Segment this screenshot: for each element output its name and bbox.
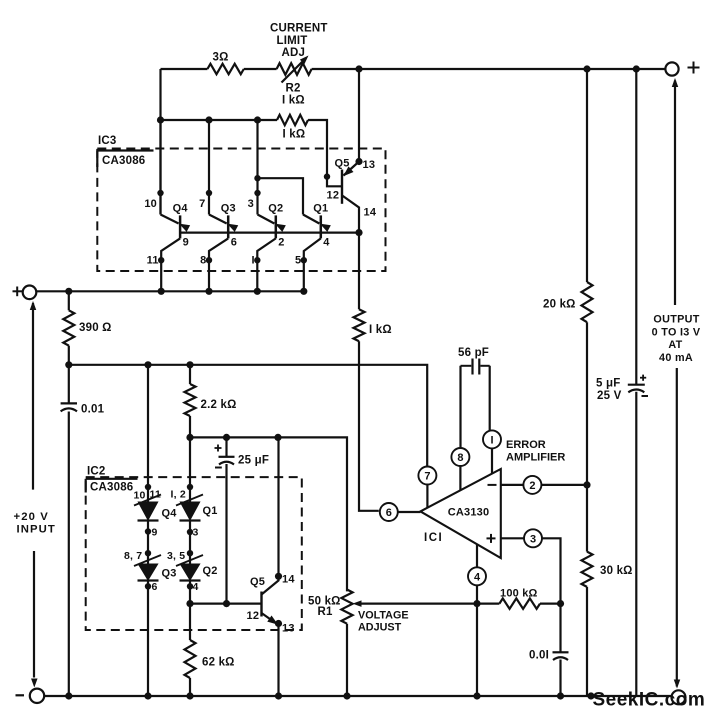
svg-text:Q1: Q1	[313, 203, 328, 215]
svg-text:Q3: Q3	[221, 203, 236, 215]
svg-text:Q4: Q4	[162, 508, 178, 520]
svg-text:3: 3	[193, 527, 199, 539]
svg-text:3: 3	[530, 533, 536, 545]
svg-text:4: 4	[323, 237, 330, 249]
svg-text:ICI: ICI	[424, 532, 443, 544]
svg-text:R1: R1	[318, 606, 334, 618]
svg-text:R2: R2	[286, 83, 301, 95]
svg-text:13: 13	[363, 159, 376, 171]
svg-text:3Ω: 3Ω	[213, 52, 229, 64]
svg-text:6: 6	[231, 237, 237, 249]
svg-text:Q3: Q3	[162, 568, 177, 580]
svg-text:9: 9	[183, 237, 189, 249]
svg-text:LIMIT: LIMIT	[277, 35, 308, 47]
svg-text:INPUT: INPUT	[17, 524, 56, 536]
svg-text:IC3: IC3	[98, 135, 117, 147]
svg-text:ADJUST: ADJUST	[358, 621, 402, 633]
svg-text:+20 V: +20 V	[14, 511, 49, 523]
svg-text:VOLTAGE: VOLTAGE	[358, 609, 409, 621]
svg-text:IC2: IC2	[87, 466, 106, 478]
svg-text:9: 9	[152, 527, 158, 539]
svg-text:11: 11	[147, 255, 159, 267]
svg-text:56 pF: 56 pF	[458, 347, 489, 359]
svg-text:2: 2	[529, 480, 535, 492]
svg-text:I kΩ: I kΩ	[283, 129, 306, 141]
svg-text:6: 6	[152, 581, 158, 593]
svg-text:Q4: Q4	[173, 203, 189, 215]
svg-text:8: 8	[200, 255, 206, 267]
svg-text:I: I	[490, 434, 493, 446]
svg-text:4: 4	[474, 571, 481, 583]
svg-text:390 Ω: 390 Ω	[79, 322, 112, 334]
svg-text:I: I	[252, 255, 255, 267]
svg-text:7: 7	[199, 198, 205, 210]
svg-text:8, 7: 8, 7	[124, 550, 142, 562]
svg-text:CA3086: CA3086	[90, 482, 133, 494]
svg-text:25 V: 25 V	[597, 390, 622, 402]
svg-text:I kΩ: I kΩ	[282, 95, 305, 107]
svg-text:ERROR: ERROR	[506, 439, 546, 451]
svg-text:CA3130: CA3130	[448, 507, 490, 519]
svg-text:2.2 kΩ: 2.2 kΩ	[201, 399, 237, 411]
svg-text:3, 5: 3, 5	[167, 550, 185, 562]
svg-text:12: 12	[247, 610, 260, 622]
svg-text:6: 6	[386, 507, 392, 519]
svg-text:14: 14	[282, 574, 295, 586]
svg-text:SeekIC.com: SeekIC.com	[593, 690, 706, 711]
svg-text:ADJ: ADJ	[282, 47, 306, 59]
svg-text:11: 11	[150, 489, 162, 501]
svg-text:3: 3	[248, 198, 254, 210]
svg-text:CURRENT: CURRENT	[270, 23, 328, 35]
svg-text:AT: AT	[668, 339, 682, 351]
svg-text:7: 7	[424, 471, 430, 483]
svg-text:4: 4	[193, 581, 199, 593]
svg-text:5: 5	[295, 255, 301, 267]
svg-text:0.01: 0.01	[81, 404, 105, 416]
svg-text:OUTPUT: OUTPUT	[653, 314, 699, 326]
svg-text:10: 10	[144, 198, 157, 210]
svg-text:0 TO I3 V: 0 TO I3 V	[652, 327, 701, 339]
svg-text:13: 13	[282, 623, 295, 635]
svg-text:30 kΩ: 30 kΩ	[600, 565, 633, 577]
svg-text:8: 8	[457, 452, 463, 464]
svg-text:I, 2: I, 2	[171, 489, 186, 501]
svg-text:CA3086: CA3086	[102, 155, 145, 167]
svg-text:25 μF: 25 μF	[238, 455, 269, 467]
svg-text:Q2: Q2	[268, 203, 283, 215]
svg-text:62 kΩ: 62 kΩ	[202, 657, 235, 669]
svg-text:Q1: Q1	[203, 505, 218, 517]
svg-text:14: 14	[364, 207, 377, 219]
svg-text:AMPLIFIER: AMPLIFIER	[506, 452, 565, 464]
svg-text:5 μF: 5 μF	[596, 378, 620, 390]
svg-text:12: 12	[327, 190, 340, 202]
svg-text:100 kΩ: 100 kΩ	[500, 588, 538, 600]
svg-text:Q5: Q5	[335, 158, 350, 170]
svg-text:0.0I: 0.0I	[529, 650, 549, 662]
svg-text:2: 2	[278, 237, 284, 249]
svg-text:Q2: Q2	[203, 565, 218, 577]
svg-text:20 kΩ: 20 kΩ	[543, 299, 576, 311]
svg-text:10: 10	[134, 490, 146, 502]
svg-text:I kΩ: I kΩ	[369, 324, 392, 336]
svg-text:40 mA: 40 mA	[659, 352, 693, 364]
svg-text:Q5: Q5	[250, 576, 265, 588]
